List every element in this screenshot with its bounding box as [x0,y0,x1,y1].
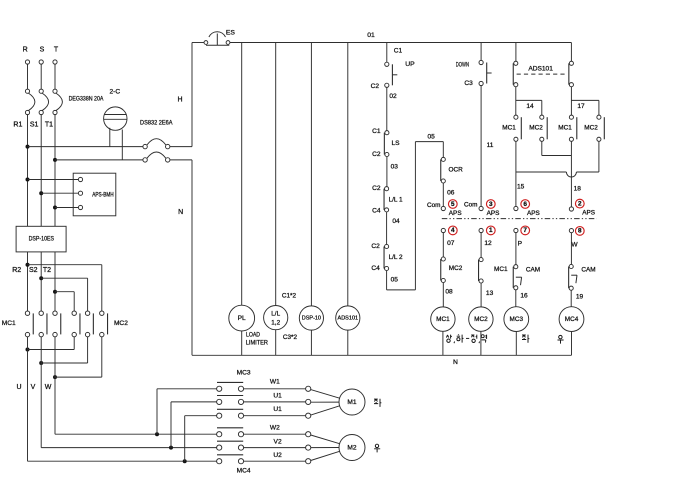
svg-text:UP: UP [405,61,415,68]
wire row 6 to motor terminal [244,460,306,462]
svg-text:U2: U2 [273,452,282,459]
motor lead terminal row 5 [306,445,311,450]
junction W below contact 3 [53,375,57,379]
wire APS C to CAM C [515,233,517,265]
svg-text:LIMITER: LIMITER [246,340,269,347]
svg-text:LOAD: LOAD [246,332,260,339]
svg-text:MC2: MC2 [529,125,543,132]
contactor coil MC3 [504,307,529,332]
wire V run to MC4 row2 [41,447,216,449]
junction T at control tap [53,158,57,162]
wire S terminal to breaker [40,64,42,89]
svg-text:C1*2: C1*2 [282,292,297,299]
svg-text:Com: Com [464,201,478,208]
svg-text:7: 7 [523,227,527,234]
junction T2 tap [53,290,57,294]
svg-text:13: 13 [486,290,494,297]
svg-text:C3: C3 [464,80,473,87]
svg-text:DOWN: DOWN [456,61,469,68]
wire MC2 coil to bottom rail [480,331,482,355]
aux contact MC1 [479,258,483,262]
pushbutton UP [385,62,389,66]
box DSP-10ES [16,226,66,252]
relay contact L/L 2 [385,244,389,248]
pin number 8 [575,227,584,236]
svg-text:DS832 2E6A: DS832 2E6A [140,120,173,127]
svg-text:MC2: MC2 [474,316,488,323]
svg-text:Com: Com [427,202,441,209]
terminal APS-BMH pin1 [78,177,82,181]
svg-text:W: W [571,242,578,249]
wire W run to MC4 row1 [55,433,217,435]
wire MC1 aux to MC2 coil [480,283,482,307]
svg-text:ES: ES [226,29,236,36]
svg-text:04: 04 [392,218,400,225]
wire U riser to MC3 row3 [184,416,186,462]
selector ADS101 contact left [514,61,518,65]
svg-text:07: 07 [447,240,455,247]
svg-text:DSP-10: DSP-10 [302,315,322,321]
label M2 direction (Korean right) [374,444,380,452]
svg-text:T: T [54,46,59,53]
wire 2-C right lead [121,130,123,160]
wire ADS101 column [347,43,349,306]
contactor coil MC4 [559,307,584,332]
wire node 17 branch [571,99,599,101]
svg-text:MC2: MC2 [449,265,463,272]
breaker CB1 pole T [53,89,57,93]
contactor main contact 1 [25,311,29,315]
wire S2 to MC2 contact 5 [41,277,87,279]
bell 2-C [104,107,127,130]
junction R to APS-BMH [26,178,30,182]
contactor main contact 2 [39,311,43,315]
svg-text:APS: APS [527,210,540,217]
wire L/L to bottom rail [275,330,277,356]
switch DS832 2E6A pole 2 [143,158,147,162]
svg-text:MC4: MC4 [237,467,251,474]
wire col D down through hop to APS D [570,141,572,207]
svg-text:06: 06 [447,189,455,196]
terminal T [53,60,57,64]
wire R terminal to breaker [27,64,29,89]
svg-text:PL: PL [238,315,246,322]
svg-text:05: 05 [391,277,399,284]
cam switch contact (MC4) [569,264,573,268]
svg-text:C2: C2 [372,185,381,192]
lamp PL [229,305,255,331]
svg-text:U1: U1 [273,392,282,399]
svg-text:MC1: MC1 [2,320,16,327]
box APS-BMH [73,173,116,216]
emergency stop switch ES [192,42,204,44]
contactor main contact 3 [53,311,57,315]
wire PL to bottom rail [241,331,243,355]
svg-text:H: H [177,97,182,104]
svg-text:2-C: 2-C [109,88,120,95]
motor lead terminal row 3 [306,413,311,418]
wire MC1 coil to bottom rail [442,331,444,355]
svg-text:08: 08 [445,289,453,296]
wire ADS101 left to node 14 [515,87,517,115]
svg-text:CAM: CAM [526,267,540,274]
label M1 direction (Korean left) [374,399,381,407]
motor M2 [339,435,365,461]
junction U below contact 1 [26,348,30,352]
terminal R [25,60,29,64]
wire left MC2 bottom to col D [541,141,543,155]
contactor coil MC2 [469,307,493,331]
svg-text:17: 17 [577,103,585,110]
wire W down [54,377,56,434]
svg-text:MC2: MC2 [584,125,598,132]
svg-text:C1: C1 [394,48,403,55]
svg-text:R2: R2 [12,267,21,274]
pin number 2 [575,199,584,208]
svg-text:14: 14 [526,103,534,110]
pin number 1 [486,226,495,235]
svg-text:U1: U1 [273,406,282,413]
wire top rail 01 [230,42,572,44]
linkage dashes ADS101 [517,73,568,75]
svg-text:MC1: MC1 [494,266,508,273]
wire OCR to APS A [442,183,444,206]
wire L/L column [275,43,277,306]
wire N riser to bottom rail [191,160,193,355]
wire U down [27,350,29,462]
contactor main contact 5 [85,311,89,315]
svg-text:05: 05 [428,133,436,140]
svg-text:P: P [518,241,523,248]
junction W riser [155,432,159,436]
pin number 4 [448,226,457,235]
junction V below contact 2 [39,361,43,365]
svg-text:T1: T1 [45,121,53,128]
wire row 2 to motor terminal [244,401,306,403]
motor lead terminal row 1 [306,386,311,391]
svg-text:12: 12 [484,240,492,247]
svg-text:OCR: OCR [449,166,464,173]
svg-text:C2: C2 [371,83,380,90]
svg-text:C4: C4 [371,265,380,272]
svg-text:N: N [178,209,183,216]
wire W riser to MC3 row1 [156,389,158,434]
svg-text:2: 2 [578,200,582,207]
pin number 7 [521,226,530,235]
junction V riser [169,446,173,450]
overcurrent relay contact OCR [441,157,445,161]
selector APS contact C [514,206,518,210]
contactor MC3 contact row 1 [217,386,222,391]
aux contact MC2 [441,257,445,261]
svg-text:W: W [45,384,52,391]
svg-text:MC2: MC2 [114,320,128,327]
pin number 5 [448,200,457,209]
svg-text:C4: C4 [372,207,381,214]
wire contact1-contact4 bottoms [27,337,29,350]
svg-text:ADS101: ADS101 [528,65,553,72]
contactor MC3 contact row 2 [217,399,222,404]
svg-text:APS: APS [582,210,595,217]
junction S2 tap [39,276,43,280]
wire 2-C left lead [109,128,111,147]
svg-text:C1: C1 [372,128,381,135]
wire UP to LS [386,87,388,130]
limit switch LS contact [385,131,389,135]
wire control feed line 1 [28,146,144,148]
annotation Korean sang,ha - jeong,yeok under MC1 MC2 [446,335,486,344]
contactor main contact 4 [72,311,76,315]
wire DSP-10 to bottom rail [310,330,312,355]
wire pole2 to N riser [170,159,192,161]
wire row 5 to motor terminal [244,447,306,449]
svg-text:MC4: MC4 [565,316,579,323]
svg-text:R: R [23,46,28,53]
svg-text:C2: C2 [371,243,380,250]
svg-text:L/L 1: L/L 1 [389,197,403,204]
wire DOWN to APS B [480,86,482,207]
wire MC3 coil to bottom rail [515,332,517,356]
wire V down [40,363,42,448]
switch DS832 2E6A pole 1 [143,144,147,148]
wire S column DSP box to MC contact [40,252,42,311]
contactor MC4 contact row 2 [217,445,222,450]
svg-text:C2: C2 [372,151,381,158]
relay DSP-10 coil [299,306,323,330]
wire T column DSP box to MC contact [54,252,56,311]
svg-text:1: 1 [489,227,493,234]
wire APS A to MC2 aux [442,233,444,257]
svg-text:APS: APS [449,210,462,217]
svg-text:18: 18 [574,186,582,193]
selector APS contact D [569,207,573,211]
wire R to APS-BMH pin1 [28,179,79,181]
svg-text:S: S [40,46,45,53]
wire T to APS-BMH pin3 [55,207,78,209]
svg-text:6: 6 [523,201,527,208]
svg-text:S1: S1 [30,121,39,128]
svg-text:MC3: MC3 [510,316,524,323]
relay ADS101 coil [336,306,360,330]
svg-text:16: 16 [520,292,528,299]
svg-text:C3*2: C3*2 [283,334,298,341]
wire contact2-contact5 bottoms [40,337,42,363]
svg-text:MC3: MC3 [237,370,251,377]
wire net 05 route [386,271,388,290]
breaker CB1 pole S [39,89,43,93]
wire contact3-contact6 bottoms [54,337,56,377]
wire S to APS-BMH pin2 [41,192,78,194]
junction U riser [183,459,187,463]
interlock contact MC2 (group right) [597,115,601,119]
svg-text:5: 5 [451,201,455,208]
wire node 14 branch [516,99,542,101]
wire R column breaker to DSP box [27,115,29,227]
junction S to APS-BMH [39,191,43,195]
svg-text:4: 4 [451,227,455,234]
contactor main contact 6 [100,311,104,315]
svg-text:V: V [31,384,36,391]
wire APS B to MC1 aux [480,233,482,258]
wire row 1 to motor terminal [244,388,306,390]
junction T to APS-BMH [53,206,57,210]
terminal S [39,60,43,64]
wire rail to DOWN button [480,43,482,61]
interlock contact MC1 (group left) [514,115,518,119]
wire cross link net 15-18 with hop [516,171,567,173]
svg-text:1,2: 1,2 [271,319,280,326]
junction R2 tap [26,263,30,267]
selector APS contact B [479,206,483,210]
svg-text:APS: APS [487,210,500,217]
svg-text:U: U [16,384,21,391]
selector linkage dash-dot line APS [442,218,597,220]
wire rail to ADS101 contact left [515,43,517,62]
svg-text:MC1: MC1 [436,316,450,323]
svg-text:L/L: L/L [271,311,280,318]
svg-text:02: 02 [389,93,397,100]
motor M1 [339,389,365,415]
pin number 6 [521,200,530,209]
interlock contact MC2 (group left) [540,115,544,119]
svg-text:01: 01 [367,32,375,39]
svg-text:T2: T2 [43,267,51,274]
svg-text:CAM: CAM [581,267,595,274]
svg-text:V2: V2 [274,438,282,445]
wire LS to L/L1 [386,157,388,187]
wire rail to UP button [386,43,388,63]
contactor coil MC1 [431,307,455,331]
wire 05 to OCR [442,142,444,158]
pin number 3 [486,200,495,209]
motor lead terminal row 2 [306,399,311,404]
wire bottom rail N [192,354,572,356]
svg-text:APS-BMH: APS-BMH [92,192,113,198]
svg-text:N: N [453,359,458,366]
svg-text:11: 11 [487,142,494,149]
contactor MC3 contact row 3 [217,413,222,418]
wire CAM C to MC3 coil [515,290,517,307]
wire U run to MC4 row3 [28,460,217,462]
svg-text:LS: LS [392,140,401,147]
wire PL column [241,43,243,306]
wire S column breaker to DSP box [40,115,42,227]
svg-text:19: 19 [576,294,584,301]
selector ADS101 contact right [569,61,573,65]
svg-text:ADS101: ADS101 [338,315,359,321]
wire ADS101 right to node 17 [570,87,572,115]
svg-text:R1: R1 [13,121,22,128]
wire APS D to CAM D [570,233,572,265]
relay contact L/L 1 [385,187,389,191]
svg-text:03: 03 [391,164,399,171]
wire rail to ADS101 contact right [570,43,572,62]
svg-text:8: 8 [578,228,582,235]
wire CAM D to MC4 coil [570,290,572,306]
svg-text:15: 15 [517,184,525,191]
wire row 3 to motor terminal [244,415,306,417]
interlock contact MC1 (group right) [569,115,573,119]
wire T2 to MC2 contact 4 [55,291,74,293]
wire row 4 to motor terminal [244,433,306,435]
svg-text:DEG338N 20A: DEG338N 20A [69,96,104,103]
wire DSP-10 column [310,43,312,306]
motor lead terminal row 6 [306,459,311,464]
terminal APS-BMH pin2 [78,191,82,195]
wire MC2 aux to MC1 coil [442,283,444,307]
svg-text:MC1: MC1 [558,125,572,132]
svg-text:M2: M2 [347,444,356,451]
svg-text:S2: S2 [29,267,38,274]
wire ADS101 to bottom rail [347,330,349,355]
wire R2 to MC2 contact 6 [28,264,102,266]
wire MC4 coil to bottom rail [571,332,573,356]
wire L/L1 to L/L2 [386,212,388,244]
annotation Korean u under MC4 [558,335,564,343]
pushbutton DOWN [479,60,483,64]
wire col C down to APS C [515,141,517,206]
svg-text:MC1: MC1 [502,125,516,132]
svg-text:W2: W2 [270,425,280,432]
wire H riser to top rail [191,43,193,147]
svg-text:L/L 2: L/L 2 [389,254,403,261]
annotation Korean jwa under MC3 [522,335,529,343]
cam switch contact (MC3) [514,265,518,269]
wire V riser to MC3 row2 [170,402,172,448]
selector APS contact A [441,206,445,210]
junction R at control tap [26,145,30,149]
motor lead terminal row 4 [306,432,311,437]
wire control feed line 2 [55,159,143,161]
wire T column breaker to DSP box [54,115,56,227]
contactor MC4 contact row 3 [217,459,222,464]
svg-text:DSP-10ES: DSP-10ES [29,236,55,243]
relay L/L 1,2 coil [264,306,288,330]
contactor MC4 contact row 1 [217,432,222,437]
svg-text:W1: W1 [270,379,280,386]
svg-text:3: 3 [489,201,493,208]
wire pole1 to H riser [170,146,192,148]
wire T terminal to breaker [54,64,56,89]
svg-text:M1: M1 [347,399,356,406]
terminal APS-BMH pin3 [78,205,82,209]
wire R column DSP box to MC contact [27,252,29,311]
breaker CB1 pole R [25,89,29,93]
wire right MC2 bottom to cross link [598,141,600,172]
